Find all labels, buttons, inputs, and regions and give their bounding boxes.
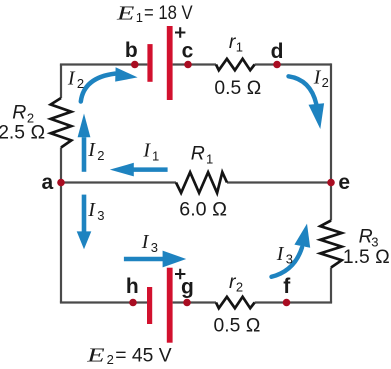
current arrow I1 straight left (middle branch) — [110, 163, 168, 177]
resistor r1 zigzag — [216, 59, 255, 70]
svg-text:I: I — [87, 199, 96, 221]
wire left top (corner to R2) — [60, 65, 62, 99]
resistor r2 zigzag — [216, 297, 255, 308]
label EMF E2 = 45 V — [86, 344, 172, 367]
svg-text:1.5 Ω: 1.5 Ω — [343, 247, 390, 268]
svg-text:I: I — [87, 139, 96, 161]
node h — [129, 299, 137, 307]
svg-text:6.0 Ω: 6.0 Ω — [179, 199, 227, 220]
svg-text:I: I — [142, 140, 151, 162]
svg-text:E: E — [116, 2, 135, 24]
current arrow I3 straight down (left branch) — [77, 195, 92, 250]
wire middle left (node a to R1) — [61, 181, 176, 183]
svg-text:1: 1 — [206, 151, 213, 166]
label current I3 bottom — [141, 231, 158, 255]
node d — [273, 61, 281, 69]
wire r2 through node f to bottom-right corner — [255, 301, 331, 302]
label resistor R1 — [191, 143, 213, 167]
wire battery E2 positive plate to node g to r2 — [173, 301, 216, 303]
svg-text:e: e — [338, 171, 350, 194]
svg-text:b: b — [125, 39, 138, 62]
label resistor R2 — [12, 102, 34, 126]
node c — [184, 61, 192, 69]
current arrow I2 curved top-left — [81, 67, 138, 101]
battery E2 negative plate — [147, 287, 152, 324]
wire right side top (corner down to R3) — [330, 63, 332, 220]
svg-text:1: 1 — [236, 40, 243, 55]
current arrow I3 curved bottom-right — [272, 224, 311, 277]
label current I2 top-left — [67, 67, 84, 91]
label current I2 left — [87, 139, 104, 163]
svg-text:I: I — [276, 243, 285, 265]
svg-text:0.5 Ω: 0.5 Ω — [214, 78, 261, 99]
svg-text:I: I — [67, 67, 76, 89]
wire left bottom (R2 through node a to bottom-left corner) — [60, 148, 62, 303]
node f — [283, 299, 291, 307]
svg-text:= 18 V: = 18 V — [144, 3, 193, 24]
node e — [327, 179, 335, 187]
svg-text:0.5 Ω: 0.5 Ω — [214, 316, 261, 337]
svg-text:2: 2 — [322, 75, 329, 90]
resistor R2 zigzag — [51, 98, 72, 148]
svg-text:2: 2 — [97, 148, 104, 163]
svg-text:R: R — [12, 102, 26, 124]
svg-text:2: 2 — [77, 76, 84, 91]
battery E1 negative plate — [147, 44, 152, 82]
svg-text:= 45 V: = 45 V — [115, 345, 171, 366]
svg-text:E: E — [86, 344, 105, 366]
wire top-left (corner to battery E1 negative plate) — [61, 63, 147, 64]
svg-text:2.5 Ω: 2.5 Ω — [0, 123, 45, 144]
battery E1 plus sign — [175, 27, 185, 37]
label resistor r2 — [229, 271, 243, 295]
svg-text:3: 3 — [151, 240, 158, 255]
battery E2 positive plate — [167, 268, 173, 343]
wire bottom-left (corner through node h to battery E2 negative plate) — [61, 301, 147, 302]
wire r1 to node d to top-right corner — [255, 63, 331, 65]
svg-text:2: 2 — [236, 280, 243, 295]
current arrow I2 curved top-right — [289, 76, 325, 129]
label EMF E1 = 18 V — [116, 2, 193, 25]
current arrow I3 straight right (bottom branch) — [124, 251, 186, 268]
resistor R3 zigzag — [320, 221, 341, 268]
current arrow I2 straight up (left branch) — [78, 114, 91, 172]
svg-text:g: g — [181, 276, 194, 299]
resistor R1 zigzag — [176, 172, 227, 193]
label current I2 top-right — [313, 66, 329, 90]
label current I1 middle — [142, 140, 159, 164]
svg-text:1: 1 — [152, 148, 159, 163]
wire right side bottom (R3 to bottom-right corner) — [330, 268, 332, 303]
battery E2 plus sign — [175, 269, 185, 279]
svg-text:h: h — [126, 275, 139, 298]
label current I3 left — [87, 199, 104, 223]
svg-text:a: a — [42, 171, 54, 194]
svg-text:R: R — [191, 143, 205, 165]
label resistor R3 — [359, 226, 379, 250]
node b — [131, 61, 139, 69]
node g — [183, 299, 191, 307]
svg-text:c: c — [182, 39, 194, 62]
battery E1 positive plate — [167, 26, 173, 100]
label current I3 bottom-right — [276, 243, 293, 267]
svg-text:d: d — [271, 40, 284, 63]
svg-text:I: I — [141, 231, 150, 253]
wire middle right (R1 to node e) — [227, 181, 331, 183]
label resistor r1 — [229, 31, 243, 55]
svg-text:1: 1 — [136, 10, 143, 25]
svg-text:f: f — [283, 275, 291, 298]
svg-text:I: I — [313, 66, 322, 88]
wire battery E1 positive plate to node c to r1 — [173, 63, 216, 65]
svg-text:3: 3 — [97, 208, 104, 223]
node a — [57, 179, 65, 187]
svg-text:3: 3 — [286, 252, 293, 267]
svg-text:2: 2 — [107, 352, 114, 367]
